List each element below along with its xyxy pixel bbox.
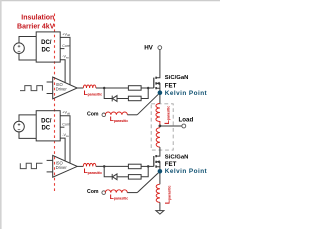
wire V2 to DC/DC top [19,115,36,121]
wire R1 to node N2 [141,87,154,89]
svg-text:+Vdd: +Vdd [62,32,70,37]
svg-text:Kelvin Point: Kelvin Point [165,90,208,97]
wire V2 to DC/DC bottom [19,132,36,139]
iso driver U4 [53,155,77,177]
PWM input waveform top [20,86,42,91]
svg-text:Kelvin Point: Kelvin Point [165,168,208,175]
svg-text:Lparasitic: Lparasitic [165,186,172,204]
page border top [0,0,220,2]
PWM input waveform bottom [20,163,42,168]
svg-text:Lparasitic: Lparasitic [164,106,171,124]
node N4 junction [147,165,150,168]
svg-text:Load: Load [179,117,194,124]
wire D2 to R4 [117,176,128,178]
U3 Com pin [60,122,70,127]
wire U4 output [77,165,83,167]
wire HV to Q1 drain [156,50,160,78]
wire N3 down to off-path [104,166,112,176]
U3 +Vdd pin [60,111,70,163]
U1 -Vss pin [60,55,69,83]
wire U2 output [77,87,83,89]
iso driver U2 [53,77,77,99]
gate resistor R3 [128,164,141,169]
parasitic inductor L2 [105,112,127,115]
svg-text:Com: Com [87,189,99,195]
Kelvin point Q1 [158,90,208,97]
Com terminal top [87,111,106,117]
voltage source V2 [14,121,25,132]
svg-text:Lparasitic: Lparasitic [110,194,128,201]
driver input stub C [47,159,53,161]
svg-text:+Vdd: +Vdd [62,111,70,116]
U1 +Vdd pin [60,32,70,84]
parasitic inductor L3 [156,104,160,126]
gate resistor R1 [128,86,141,91]
wire L2 to kelvin diagonal [127,114,137,116]
wire V1 to DC/DC bottom [19,54,36,61]
svg-text:SiC/GaN: SiC/GaN [165,155,189,161]
insulation barrier dashed line [54,14,56,192]
wire N1 down to off-path [104,88,112,99]
svg-text:Com: Com [62,44,70,48]
svg-text:SiC/GaN: SiC/GaN [165,75,189,81]
svg-text:-Vss: -Vss [62,55,69,60]
SiC/GaN FET Q2 [154,155,160,184]
diode D2 [112,174,117,180]
kelvin connection wire Q1 [137,94,158,115]
Q2 labels [165,155,189,168]
gate resistor R2 [128,96,141,101]
svg-text:HV: HV [144,45,153,52]
DC/DC converter U1 [36,32,60,62]
wire L5 to node [96,165,128,167]
svg-text:Lparasitic: Lparasitic [84,90,102,97]
DC/DC converter U3 [36,111,60,141]
wire to Load [160,125,182,127]
kelvin connection wire Q2 [137,173,158,193]
U1 Com pin [60,44,70,49]
svg-text:-Vss: -Vss [62,133,69,138]
parasitic inductor L6 [156,184,160,202]
svg-text:DC: DC [41,126,50,132]
Kelvin point Q2 [158,168,208,175]
svg-text:FET: FET [165,83,177,90]
parasitic inductor L7 [105,190,127,193]
node N2 junction [147,87,150,90]
HV terminal [144,45,161,52]
wire L1 to node [96,87,128,89]
voltage source V1 [14,43,25,54]
svg-text:DC/: DC/ [41,40,52,46]
Load terminal [179,117,194,128]
svg-text:Driver: Driver [56,165,68,170]
node N1 junction [103,87,106,90]
parasitic inductor L5 [83,163,96,166]
parasitic inductor L4 [156,128,160,147]
diode D1 [112,96,117,102]
svg-text:FET: FET [165,161,177,168]
wire L6 to ground [159,202,161,210]
wire L7 to kelvin diagonal [127,192,137,194]
Com terminal bottom [87,189,105,195]
page border left [0,0,2,229]
U3 -Vss pin [60,133,69,161]
svg-text:Barrier 4kV: Barrier 4kV [17,24,55,31]
svg-text:Com: Com [62,122,70,126]
driver input stub A [47,81,53,83]
ground [156,211,164,215]
parasitic inductor L1 [83,85,96,88]
svg-text:Com: Com [87,111,99,117]
wire L4 to Q2 drain [156,147,160,156]
svg-text:DC/: DC/ [41,119,52,125]
wire R3 to node N4 [141,165,154,167]
wire R2 up to node N2 [141,88,148,99]
node load junction [159,125,162,128]
svg-text:Lparasitic: Lparasitic [84,168,102,175]
driver input stub B [47,93,53,95]
wire D1 to R2 [117,98,128,100]
wire R4 up to node N4 [141,166,148,176]
svg-text:Driver: Driver [56,87,68,92]
driver input stub D [47,171,53,173]
insulation barrier label [17,14,55,30]
Q1 labels [165,75,189,90]
svg-text:Lparasitic: Lparasitic [110,116,128,123]
wire V1 to DC/DC top [19,37,36,43]
parasitic inductance dashed box [151,104,173,150]
node N3 junction [103,165,106,168]
svg-text:Insulation: Insulation [21,14,54,21]
svg-text:DC: DC [41,47,50,53]
SiC/GaN FET Q1 [154,77,160,104]
gate resistor R4 [128,175,141,180]
